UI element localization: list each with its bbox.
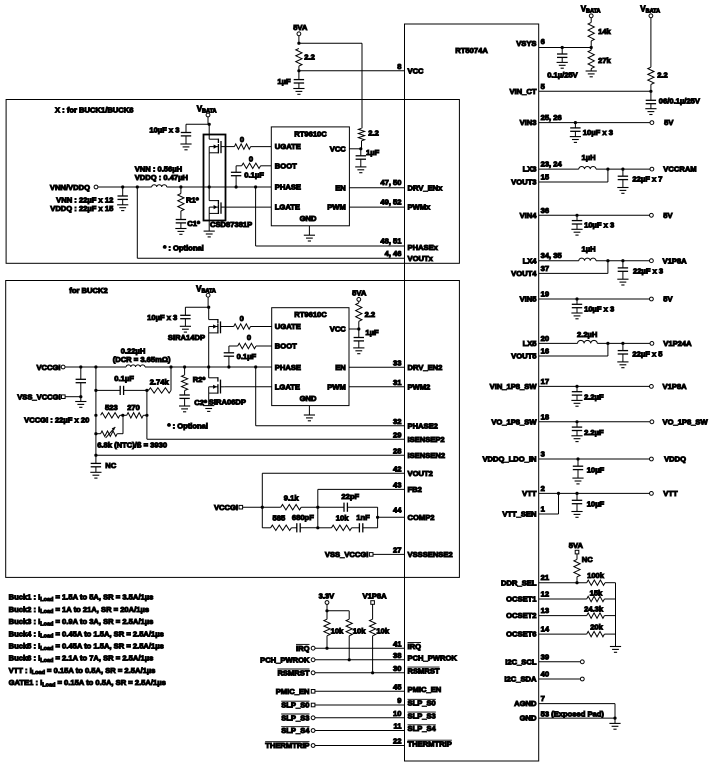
svg-text:32: 32 (393, 417, 401, 426)
svg-text:ISENSEN2: ISENSEN2 (408, 451, 446, 460)
svg-text:21: 21 (541, 573, 550, 582)
svg-text:1nF: 1nF (356, 513, 370, 522)
svg-text:GND: GND (300, 214, 317, 223)
wire output node (box1) (98, 185, 152, 188)
wire VBATA rail (box1) (208, 117, 211, 139)
svg-text:V1P8A: V1P8A (663, 256, 688, 265)
wire VCCGI output node (65, 365, 126, 368)
svg-text:680pF: 680pF (292, 513, 314, 522)
pin 9 SLP_S0 (281, 696, 436, 709)
svg-text:1: 1 (541, 505, 546, 514)
svg-text:0: 0 (247, 333, 251, 342)
svg-text:VTT: VTT (522, 489, 537, 498)
wire COMP2 (376, 506, 435, 528)
svg-text:SIRA14DP: SIRA14DP (168, 333, 205, 342)
note Buck1 (9, 593, 154, 603)
svg-text:523: 523 (105, 403, 118, 412)
svg-text:22µF x 5: 22µF x 5 (632, 349, 663, 358)
svg-text:PHASEx: PHASEx (408, 243, 439, 252)
svg-text:0.1µ/25V: 0.1µ/25V (547, 70, 578, 79)
svg-text:5VA: 5VA (569, 541, 584, 550)
resistor 9.1k (262, 493, 318, 510)
svg-text:CSD87381P: CSD87381P (210, 220, 252, 229)
svg-text:3.3V: 3.3V (319, 592, 336, 601)
svg-text:3: 3 (541, 450, 545, 459)
svg-text:VCCRAM: VCCRAM (663, 165, 696, 174)
capacitor 0.1u/25V (VSYS) (547, 48, 578, 80)
svg-text:11: 11 (393, 722, 402, 731)
svg-text:SLP_S0: SLP_S0 (408, 699, 436, 708)
svg-text:0.1µF: 0.1µF (114, 374, 134, 383)
supply 5VA (box2) (352, 288, 367, 301)
svg-text:PHASE: PHASE (275, 363, 301, 372)
svg-text:VIN_1P8_SW: VIN_1P8_SW (490, 382, 538, 391)
ground SIRA06DP source (203, 393, 214, 411)
svg-text:10µF x 3: 10µF x 3 (149, 125, 179, 134)
svg-text:2.2: 2.2 (657, 70, 668, 79)
wire BOOT (box2) (229, 345, 272, 347)
pin 17 VIN_1P8_SW (490, 377, 687, 391)
svg-text:Buck3 : ILoad = 0.9A to 3A, SR: Buck3 : ILoad = 0.9A to 3A, SR = 2.5A/1µ… (9, 617, 154, 627)
svg-text:5VA: 5VA (352, 288, 367, 297)
label optional (box1) (163, 243, 204, 252)
svg-text:R1*: R1* (186, 196, 199, 205)
svg-text:VIN3: VIN3 (520, 118, 537, 127)
note Buck5 (9, 642, 164, 652)
resistor 2.2 (driver VCC box1) (358, 128, 378, 149)
pin 23,24 LX3 (523, 153, 697, 174)
svg-text:OCSET2: OCSET2 (506, 611, 536, 620)
svg-text:SLP_S3: SLP_S3 (408, 712, 436, 721)
wire phase node (box1) (167, 185, 272, 188)
svg-text:I2C_SDA: I2C_SDA (504, 675, 537, 684)
svg-text:1µF: 1µF (366, 148, 380, 157)
svg-text:PWMx: PWMx (408, 203, 432, 212)
pin 40 I2C_SDA (504, 670, 584, 684)
resistor 0 (UGATE box2) (234, 314, 251, 329)
capacitor 1uF (driver VCC box2) (353, 328, 379, 354)
wire comp left leg (261, 473, 264, 528)
resistor 585 (262, 514, 291, 531)
svg-text:0: 0 (240, 135, 244, 144)
svg-text:IRQ: IRQ (408, 642, 422, 651)
svg-text:1µH: 1µH (582, 153, 596, 162)
wire VOUT2 (262, 465, 433, 478)
pin 1 VTT_SEN (502, 493, 558, 518)
svg-text:36: 36 (541, 206, 549, 215)
svg-text:VSS_VCCGI: VSS_VCCGI (17, 393, 60, 402)
svg-text:16: 16 (541, 347, 549, 356)
svg-text:Buck2 : ILoad = 1A to 21A, SR: Buck2 : ILoad = 1A to 21A, SR = 20A/1µs (9, 605, 149, 615)
svg-text:RSMRST: RSMRST (408, 667, 440, 676)
capacitor 22uF x 3 (617, 261, 663, 285)
svg-text:C1*: C1* (187, 219, 200, 228)
RT9610C pin VCC (330, 144, 347, 153)
svg-text:ISENSEP2: ISENSEP2 (408, 435, 445, 444)
svg-text:10: 10 (393, 709, 401, 718)
resistor 0 (BOOT) (242, 155, 261, 169)
inductor 0.22uH (DCR = 3.65mOhm) (113, 347, 171, 368)
RT9610C pin UGATE (275, 142, 301, 151)
svg-text:Buck6 : ILoad = 2.1A to 7A, SR: Buck6 : ILoad = 2.1A to 7A, SR = 2.5A/1µ… (9, 654, 154, 664)
svg-text:for BUCK2: for BUCK2 (69, 286, 107, 295)
svg-text:PWM2: PWM2 (408, 382, 431, 391)
capacitor 10uF x 3 (box2) (147, 313, 191, 332)
wire 5VA branch to driver VCC rail (299, 43, 362, 128)
svg-text:2.2µF: 2.2µF (584, 392, 604, 401)
pin 22 THERMTRIP (265, 737, 452, 750)
svg-text:VBATA: VBATA (197, 104, 217, 114)
svg-text:10µF x 3: 10µF x 3 (583, 128, 613, 137)
svg-text:2.74k: 2.74k (150, 377, 170, 386)
RT9610C pin PWM (327, 203, 346, 212)
capacitor 10uF (VDDQ_LDO_IN) (572, 459, 604, 484)
svg-text:5V: 5V (664, 118, 674, 127)
svg-text:FB2: FB2 (408, 485, 422, 494)
svg-text:0.22µH: 0.22µH (121, 347, 146, 356)
svg-text:0.1µF: 0.1µF (237, 352, 257, 361)
resistor 0 (UGATE) (234, 135, 250, 150)
pin 21 DDR_SEL (501, 573, 587, 587)
IC RT9610C (box1) name (294, 129, 327, 138)
package CSD87381P outline (204, 135, 226, 221)
resistor 0 (BOOT box2) (238, 333, 256, 349)
RT9610C2 pin PWM (327, 382, 346, 391)
RT9610C2 pin BOOT (275, 342, 297, 351)
svg-text:1µF: 1µF (365, 328, 379, 337)
svg-text:PWM: PWM (327, 203, 346, 212)
wire SIRA06DP drain (208, 367, 210, 378)
svg-text:BOOT: BOOT (275, 161, 297, 170)
terminal VCCGI (comp) (214, 503, 262, 512)
terminal VSS_VCCGI (17, 393, 65, 402)
svg-text:VCCGI: VCCGI (36, 363, 60, 372)
svg-text:24.3k: 24.3k (584, 604, 604, 613)
svg-text:7: 7 (541, 694, 545, 703)
svg-text:VOUT5: VOUT5 (511, 352, 537, 361)
svg-text:Buck4 : ILoad = 0.45A to 1.5A,: Buck4 : ILoad = 0.45A to 1.5A, SR = 2.5A… (9, 629, 164, 639)
node 523/270 (120, 414, 127, 417)
resistor NC pullup (574, 554, 593, 583)
svg-text:DRV_EN2: DRV_EN2 (408, 363, 443, 372)
svg-text:VBATA: VBATA (581, 5, 601, 15)
svg-text:29: 29 (393, 430, 401, 439)
resistor 10k (IRQ) (324, 611, 344, 648)
box1 title (55, 106, 133, 115)
RT9610C2 pin GND (300, 394, 317, 403)
svg-text:2: 2 (541, 484, 545, 493)
pin 39 I2C_SCL (505, 652, 584, 666)
pin 5 VIN_CT (509, 82, 652, 96)
svg-text:* : Optional: * : Optional (163, 243, 204, 252)
RT9610C2 pin EN (335, 363, 346, 372)
svg-text:10k: 10k (336, 514, 349, 523)
svg-text:RT9610C: RT9610C (294, 310, 327, 319)
resistor 14k (588, 18, 611, 48)
svg-text:PHASE: PHASE (275, 183, 301, 192)
svg-text:2.2µF: 2.2µF (584, 428, 604, 437)
wire VOUTx feedback (137, 187, 433, 263)
capacitor 0.1uF (sense) (96, 374, 149, 395)
svg-text:22µF x 7: 22µF x 7 (632, 175, 662, 184)
svg-text:10µF: 10µF (587, 500, 605, 509)
svg-text:VO_1P8_SW: VO_1P8_SW (491, 417, 537, 426)
svg-text:19: 19 (541, 290, 549, 299)
svg-text:VSYS: VSYS (516, 39, 536, 48)
capacitor 10uF (VTT) (571, 493, 604, 517)
svg-text:30: 30 (393, 664, 401, 673)
svg-text:5VA: 5VA (293, 23, 308, 32)
svg-text:4, 46: 4, 46 (385, 249, 402, 258)
capacitor 1nF (352, 513, 378, 532)
note GATE1 (9, 678, 166, 688)
svg-text:100k: 100k (587, 571, 605, 580)
svg-text:RSMRST: RSMRST (277, 668, 309, 677)
svg-text:23, 24: 23, 24 (541, 160, 563, 169)
capacitor VCCGI 22uF x 20 (24, 367, 89, 424)
svg-text:VTT : ILoad = 0.15A to 0.5A, S: VTT : ILoad = 0.15A to 0.5A, SR = 2.5A/1… (9, 666, 156, 676)
svg-text:10µF x 3: 10µF x 3 (584, 304, 614, 313)
svg-text:10µF x 3: 10µF x 3 (584, 221, 614, 230)
svg-text:BOOT: BOOT (275, 342, 297, 351)
terminal VCCGI (36, 363, 65, 372)
svg-text:39: 39 (541, 652, 549, 661)
svg-text:47, 50: 47, 50 (380, 178, 401, 187)
capacitor 0.1uF (bootstrap box1) (231, 166, 264, 187)
svg-text:LX5: LX5 (523, 339, 538, 348)
capacitor 22uF x 5 (617, 343, 663, 367)
svg-text:THERMTRIP: THERMTRIP (408, 740, 452, 749)
svg-text:V1P24A: V1P24A (663, 339, 692, 348)
label 6.8k NTC (97, 440, 167, 449)
wire VCC pin 8 (299, 70, 405, 72)
svg-text:GND: GND (520, 714, 537, 723)
supply 5VA (DDR_SEL) (569, 541, 584, 554)
svg-text:2.2: 2.2 (368, 129, 379, 138)
svg-text:38: 38 (393, 651, 401, 660)
svg-text:41: 41 (393, 639, 402, 648)
svg-text:OCSET6: OCSET6 (506, 630, 536, 639)
wire ISENSEP2 (145, 390, 444, 443)
wire UGATE (251, 146, 272, 148)
resistor 10k (PCH_PWROK) (346, 619, 366, 660)
pin 2 VTT (522, 484, 678, 498)
svg-text:SLP_S4: SLP_S4 (408, 724, 437, 733)
wire current sense bus (94, 367, 97, 455)
svg-text:15k: 15k (590, 588, 603, 597)
svg-text:12: 12 (541, 590, 549, 599)
transistor SIRA06DP (209, 377, 225, 394)
supply VBATA (box2) (196, 285, 216, 298)
RT9610C2 pin VCC (330, 325, 347, 334)
svg-text:V1P8A: V1P8A (363, 592, 388, 601)
pin 36 VIN4 (520, 206, 674, 220)
IC RT5074A outline (405, 24, 539, 761)
svg-text:VO_1P8_SW: VO_1P8_SW (663, 417, 709, 426)
svg-text:Buck5 : ILoad = 0.45A to 1.5A,: Buck5 : ILoad = 0.45A to 1.5A, SR = 2.5A… (9, 642, 164, 652)
pin 16 VOUT5 (511, 343, 608, 360)
svg-text:14k: 14k (598, 27, 611, 36)
resistor 27k (586, 48, 612, 77)
svg-text:25, 26: 25, 26 (541, 113, 562, 122)
svg-text:VOUT2: VOUT2 (408, 469, 433, 478)
resistor 2.74k (sense) (149, 377, 172, 393)
svg-text:Buck1 : ILoad = 1.5A to 5A, SR: Buck1 : ILoad = 1.5A to 5A, SR = 3.5A/1µ… (9, 593, 154, 603)
node FB2 (316, 506, 319, 509)
wire VBATA rail (box2) (207, 297, 210, 320)
svg-text:33: 33 (393, 358, 401, 367)
svg-text:2.2: 2.2 (304, 53, 315, 62)
svg-text:44: 44 (393, 506, 402, 515)
resistor 6.8k NTC (96, 415, 123, 438)
svg-text:VSSSENSE2: VSSSENSE2 (408, 550, 453, 559)
svg-text:X : for BUCK1/BUCK6: X : for BUCK1/BUCK6 (55, 106, 133, 115)
capacitor 22pF (318, 492, 378, 512)
svg-text:37: 37 (541, 264, 549, 273)
svg-text:0: 0 (240, 314, 244, 323)
svg-text:9.1k: 9.1k (284, 493, 300, 502)
svg-text:22pF: 22pF (341, 492, 359, 501)
RT9610C2 pin UGATE (275, 322, 301, 331)
terminal VNN/VDDQ (50, 183, 98, 192)
svg-text:28: 28 (393, 446, 401, 455)
svg-text:VOUT3: VOUT3 (511, 178, 536, 187)
svg-text:VDDQ : 22µF x 15: VDDQ : 22µF x 15 (50, 204, 114, 213)
resistor 10k (comp) (318, 514, 352, 531)
svg-text:VCC: VCC (408, 66, 425, 75)
RT9610C2 pin LGATE (275, 382, 300, 391)
pin 15 VOUT3 (511, 169, 608, 187)
svg-text:VOUT4: VOUT4 (511, 269, 537, 278)
wire BOOT (236, 165, 271, 167)
note Buck4 (9, 629, 164, 639)
ground VSS_VCCGI (75, 397, 86, 408)
note Buck6 (9, 654, 154, 664)
pin 12 OCSET1 (506, 590, 587, 604)
wire PHASEx feedback (256, 187, 439, 252)
capacitor 0.1uF (bootstrap box2) (224, 346, 257, 367)
pin 13 OCSET2 (506, 606, 587, 620)
supply VBATA (14k) (581, 5, 601, 18)
wire OCSET bus (610, 583, 621, 653)
svg-text:10k: 10k (376, 627, 389, 636)
wire PWM to PWM2 (349, 378, 430, 391)
region box BUCK2 (6, 281, 460, 578)
pin 38 PCH_PWROK (260, 651, 457, 664)
svg-text:48, 51: 48, 51 (380, 237, 402, 246)
ground RT9610C (box2) (304, 406, 315, 421)
svg-text:OCSET1: OCSET1 (506, 595, 537, 604)
svg-text:VCCGI : 22µF x 20: VCCGI : 22µF x 20 (24, 415, 89, 424)
transistor Q-high CSD87381P (209, 139, 234, 154)
wire PHASE2 feedback (256, 367, 438, 430)
pin 20 LX5 (523, 330, 693, 348)
svg-text:20: 20 (541, 334, 549, 343)
svg-text:RT9610C: RT9610C (294, 129, 327, 138)
svg-text:I2C_SCL: I2C_SCL (505, 657, 537, 666)
pin 25,26 VIN3 (520, 113, 675, 127)
svg-text:17: 17 (541, 377, 549, 386)
svg-text:PMIC_EN: PMIC_EN (276, 687, 310, 696)
resistor 523 (101, 403, 120, 418)
svg-text:22: 22 (393, 737, 401, 746)
svg-text:* : Optional: * : Optional (168, 422, 209, 431)
svg-text:9: 9 (397, 696, 401, 705)
supply 5VA (top) (293, 23, 308, 36)
svg-text:VCC: VCC (330, 325, 347, 334)
transistor Q-low CSD87381P (209, 200, 225, 214)
capacitor 06/0.1u/25V (645, 91, 701, 114)
inductor VNN 0.56uH / VDDQ 0.47uH (135, 165, 188, 188)
RT9610C pin EN (335, 183, 346, 192)
svg-text:NC: NC (582, 555, 593, 564)
svg-text:VDDQ: VDDQ (664, 455, 686, 464)
RT9610C2 pin PHASE (275, 363, 301, 372)
wire ISENSEN2 (94, 446, 445, 459)
svg-text:10k: 10k (353, 627, 366, 636)
svg-text:EN: EN (335, 183, 346, 192)
node comp mid (316, 526, 319, 529)
svg-text:COMP2: COMP2 (408, 513, 435, 522)
svg-text:EN: EN (335, 363, 346, 372)
resistor 24.3k (584, 604, 615, 618)
pin 37 VOUT4 (511, 261, 608, 278)
svg-text:IRQ: IRQ (296, 644, 310, 653)
resistor R2* (snubber box2) (182, 367, 206, 391)
svg-text:LGATE: LGATE (275, 382, 300, 391)
svg-text:GND: GND (300, 394, 317, 403)
capacitor 10uF x 3 (VIN5) (571, 299, 614, 319)
svg-text:RT5074A: RT5074A (455, 46, 488, 55)
svg-text:10µF: 10µF (587, 466, 605, 475)
wire UGATE (box2) (251, 326, 272, 328)
svg-text:NC: NC (105, 461, 116, 470)
svg-text:10k: 10k (331, 627, 344, 636)
svg-text:VCC: VCC (330, 144, 347, 153)
node VCC8 (297, 69, 300, 72)
svg-text:5: 5 (541, 82, 546, 91)
capacitor 2.2uF (VO_1P8_SW) (571, 422, 604, 442)
svg-text:PWM: PWM (327, 382, 346, 391)
pin 14 OCSET6 (506, 625, 587, 639)
svg-text:PMIC_EN: PMIC_EN (408, 685, 442, 694)
svg-text:18: 18 (541, 412, 549, 421)
supply VBATA (VIN_CT) (640, 5, 660, 18)
resistor R1* (snubber) (178, 187, 199, 211)
wire Q-low drain (208, 187, 210, 201)
svg-text:SLP_S4: SLP_S4 (281, 726, 310, 735)
capacitor 680pF (291, 513, 317, 532)
svg-text:27: 27 (393, 546, 401, 555)
wire SIRA14DP source to phase (208, 333, 210, 367)
wire LGATE (225, 206, 271, 208)
note VTT (9, 666, 156, 676)
resistor 2.2 (VIN_CT) (648, 18, 668, 92)
resistor 20k (587, 622, 616, 637)
svg-text:1µH: 1µH (582, 245, 596, 254)
wire PWM to PWMx (349, 198, 431, 212)
svg-text:585: 585 (273, 514, 286, 523)
pin 45 PMIC_EN (276, 683, 442, 696)
svg-text:PCH_PWROK: PCH_PWROK (260, 655, 310, 664)
svg-text:DDR_SEL: DDR_SEL (501, 578, 537, 587)
wire FB2 (318, 481, 422, 528)
RT9610C pin GND (300, 214, 317, 223)
pin 19 VIN5 (520, 290, 674, 304)
resistor 15k (587, 588, 616, 601)
svg-text:VIN4: VIN4 (520, 211, 538, 220)
ground Q-low source (204, 213, 215, 237)
